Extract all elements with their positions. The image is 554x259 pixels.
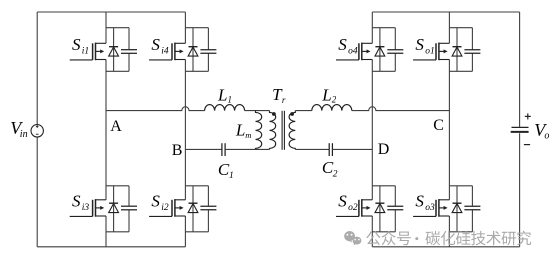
wire node B to C1 <box>185 148 222 150</box>
svg-text:o1: o1 <box>425 47 435 57</box>
svg-text:o3: o3 <box>425 203 435 213</box>
capacitor C1 <box>221 143 223 156</box>
svg-text:S: S <box>338 192 347 211</box>
wire L1 to transformer primary top <box>245 110 270 112</box>
svg-text:r: r <box>282 95 286 105</box>
svg-text:S: S <box>72 35 81 54</box>
transformer Tr core <box>281 111 283 150</box>
svg-text:m: m <box>245 130 251 140</box>
svg-text:C: C <box>433 117 444 134</box>
svg-text:1: 1 <box>229 171 234 181</box>
wire bridge leg B-phase (node B) <box>184 12 186 43</box>
svg-text:i2: i2 <box>161 203 169 213</box>
svg-text:L: L <box>217 85 227 104</box>
inductor L1 <box>205 105 245 111</box>
svg-text:2: 2 <box>332 95 337 105</box>
MOSFET switch So1 with antiparallel diode and snubber capacitor <box>413 28 480 72</box>
svg-text:L: L <box>321 85 331 104</box>
wire bottom rail of input bridge <box>37 246 185 248</box>
svg-text:S: S <box>415 35 424 54</box>
wire bottom rail of output bridge <box>372 246 519 248</box>
inductor L2 <box>312 105 352 111</box>
svg-text:i3: i3 <box>82 203 90 213</box>
svg-text:2: 2 <box>333 170 338 180</box>
wire output rail lower segment <box>519 133 521 247</box>
MOSFET switch So4 with antiparallel diode and snubber capacitor <box>336 28 403 72</box>
wire bridge leg C-phase (node C) <box>448 12 450 43</box>
svg-text:D: D <box>378 141 390 158</box>
wire transformer secondary bottom to C2 <box>295 148 329 150</box>
svg-text:S: S <box>415 192 424 211</box>
wire top rail of input bridge <box>37 11 185 13</box>
svg-text:o: o <box>544 130 549 141</box>
wire C1 to transformer primary bottom <box>225 148 269 150</box>
MOSFET switch Si2 with antiparallel diode and snubber capacitor <box>149 186 216 232</box>
svg-text:o4: o4 <box>348 47 358 57</box>
output minus sign <box>524 144 530 146</box>
MOSFET switch So2 with antiparallel diode and snubber capacitor <box>336 186 403 232</box>
wire bridge leg D-phase (node D) <box>371 12 373 43</box>
svg-text:S: S <box>151 192 160 211</box>
MOSFET switch So3 with antiparallel diode and snubber capacitor <box>413 186 480 232</box>
wire bridge leg A-phase (node A) <box>105 12 107 43</box>
svg-text:o2: o2 <box>348 203 358 213</box>
output capacitor Vo plates <box>512 126 529 128</box>
capacitor C2 <box>328 143 330 156</box>
svg-text:B: B <box>172 142 183 159</box>
wire L2 to node C with hopover of leg D <box>352 107 450 111</box>
svg-text:L: L <box>235 120 245 139</box>
wire output rail upper segment <box>519 12 521 127</box>
magnetizing inductance Lm <box>256 111 262 150</box>
transformer Tr secondary winding <box>289 111 295 150</box>
wire left input rail lower segment <box>36 137 38 247</box>
svg-text:S: S <box>338 35 347 54</box>
transformer secondary polarity dot <box>290 112 294 116</box>
svg-text:S: S <box>151 35 160 54</box>
wire left input rail upper segment <box>36 12 38 125</box>
voltage source Vin <box>31 125 43 137</box>
svg-text:S: S <box>72 192 81 211</box>
svg-text:in: in <box>20 129 28 140</box>
MOSFET switch Si3 with antiparallel diode and snubber capacitor <box>70 186 137 232</box>
watermark text gongzhonghao tanhuagui jishu yanjiu <box>366 231 531 246</box>
transformer Tr primary winding <box>270 111 276 150</box>
MOSFET switch Si1 with antiparallel diode and snubber capacitor <box>70 28 137 72</box>
transformer primary polarity dot <box>272 112 276 116</box>
output plus sign <box>525 115 531 117</box>
wire transformer secondary top to L2 <box>295 110 312 112</box>
MOSFET switch Si4 with antiparallel diode and snubber capacitor <box>149 28 216 72</box>
svg-text:i1: i1 <box>82 47 89 57</box>
watermark WeChat icon <box>344 231 361 245</box>
wire C2 to node D <box>332 148 372 150</box>
wire top rail of output bridge <box>372 11 519 13</box>
svg-text:1: 1 <box>228 95 233 105</box>
svg-text:A: A <box>110 118 122 135</box>
wire node A to L1 with hopover of leg B <box>106 107 205 111</box>
svg-text:i4: i4 <box>161 47 169 57</box>
